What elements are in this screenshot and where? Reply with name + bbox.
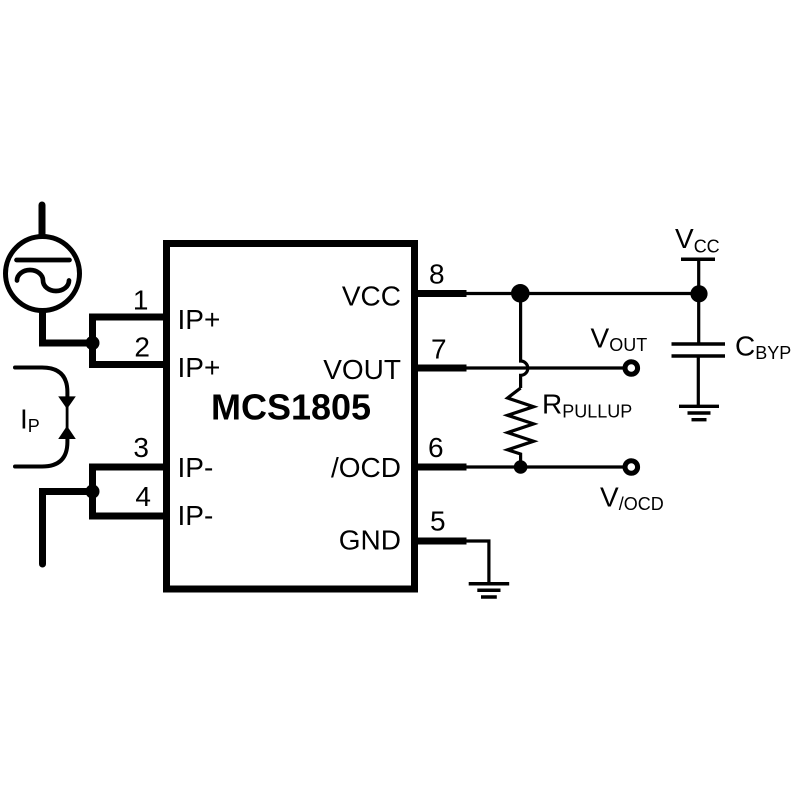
svg-text:3: 3 <box>133 432 149 463</box>
op IC U1 MCS1805 body <box>167 244 415 590</box>
IP arc middle thin line <box>66 397 69 437</box>
svg-text:7: 7 <box>431 334 447 365</box>
wire VCC rail down to capacitor <box>697 259 700 344</box>
capacitor CBYP bottom plate <box>672 354 726 358</box>
wire pins 3-4 shorting bracket <box>93 467 171 516</box>
svg-text:8: 8 <box>429 259 445 290</box>
junction dot resistor//OCD node <box>514 460 528 474</box>
svg-text:IP-: IP- <box>178 452 214 483</box>
ground GND pin 5 <box>469 584 510 597</box>
IP arrowhead down <box>58 396 76 409</box>
wire pins 1-2 shorting bracket <box>93 317 171 365</box>
svg-text:MCS1805: MCS1805 <box>211 386 371 427</box>
wire node B to bottom-left lead <box>43 492 93 565</box>
AC current source VS circle <box>6 237 80 311</box>
VOUT open terminal <box>625 362 638 375</box>
svg-text:6: 6 <box>428 432 444 463</box>
AC source overline bar <box>17 258 70 263</box>
IP current arc bottom <box>15 437 67 467</box>
node B junction dot <box>86 485 100 499</box>
svg-text:VCC: VCC <box>342 281 401 312</box>
wire pin 7 to VOUT terminal <box>465 366 625 369</box>
svg-text:IP+: IP+ <box>178 352 221 383</box>
AC source sine wave <box>17 270 69 291</box>
V/OCD open terminal <box>625 461 638 474</box>
wire source bottom to node A <box>43 311 91 343</box>
resistor RPULLUP zigzag <box>508 388 534 463</box>
ground below CBYP <box>679 406 719 419</box>
VCC supply rail bar <box>681 257 715 261</box>
svg-text:IP+: IP+ <box>178 304 221 335</box>
resistor RPULLUP top wire with hop over pin7 wire <box>521 294 528 389</box>
node A junction dot <box>86 336 100 350</box>
wire capacitor to ground <box>697 356 700 405</box>
svg-text:1: 1 <box>133 285 149 316</box>
pin 6 stub <box>411 464 467 471</box>
IP current arc top <box>15 368 67 398</box>
wire pin 6 to V/OCD terminal <box>465 465 625 468</box>
svg-text:2: 2 <box>134 332 150 363</box>
pin 5 stub <box>411 538 467 545</box>
pin 7 stub <box>411 365 467 372</box>
svg-text:4: 4 <box>135 481 151 512</box>
IP arrowhead up <box>58 426 76 439</box>
wire pin 8 to VCC node <box>465 292 698 295</box>
svg-text:IP-: IP- <box>178 500 214 531</box>
wire pin 5 to ground <box>465 541 489 582</box>
svg-text:GND: GND <box>339 525 401 556</box>
pin 8 stub <box>411 290 467 297</box>
AC current source VS top lead <box>39 205 46 238</box>
svg-text:VOUT: VOUT <box>323 354 401 385</box>
junction dot VCC node <box>690 285 707 302</box>
capacitor CBYP top plate <box>672 342 726 346</box>
svg-text:5: 5 <box>430 506 446 537</box>
junction dot VCC/resistor node <box>511 284 530 303</box>
svg-text:/OCD: /OCD <box>331 452 401 483</box>
